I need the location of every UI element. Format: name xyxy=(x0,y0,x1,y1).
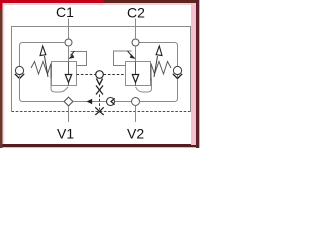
wire top-left branch xyxy=(20,43,66,67)
check valve CV1 (left) xyxy=(15,66,24,78)
wire C2 vertical xyxy=(135,19,137,40)
pilot piston passage (left valve) xyxy=(68,51,86,66)
pilot line right valve to shuttle xyxy=(104,74,126,76)
adjustment arrow (right valve) xyxy=(154,46,162,77)
wire right vertical upper xyxy=(139,43,178,67)
pilot loop (left valve) xyxy=(51,78,68,92)
node V2 junction (circle) xyxy=(132,98,140,106)
adjustment arrow (left valve) xyxy=(40,46,48,77)
manifold boundary box xyxy=(12,27,191,112)
spring (left valve) xyxy=(31,62,51,82)
pilot piston passage (right valve) xyxy=(114,51,136,66)
wire main line left-center xyxy=(73,101,106,103)
pilot loop (right valve) xyxy=(136,78,152,92)
wire C1 to valve xyxy=(68,46,70,62)
pilot line left valve to shuttle xyxy=(77,74,96,76)
svg-text:C2: C2 xyxy=(127,5,145,21)
counterbalance valve body (left) xyxy=(52,62,77,86)
svg-text:V2: V2 xyxy=(127,126,144,142)
wire V2 node to right corner xyxy=(140,75,178,102)
wire C2 to valve xyxy=(135,46,137,62)
counterbalance valve body (right) xyxy=(126,62,151,86)
shuttle circle xyxy=(96,71,104,79)
orifice (vertical line) xyxy=(96,86,103,95)
svg-text:V1: V1 xyxy=(57,126,74,142)
check valve CV2 (right) xyxy=(173,66,182,78)
node V1 junction (diamond) xyxy=(64,97,73,106)
wire C1 vertical xyxy=(68,19,70,40)
poppet (left valve) xyxy=(65,62,71,86)
wire check to V2 node xyxy=(115,101,132,103)
check valve CV3 (center) xyxy=(107,98,115,106)
port circle C1 xyxy=(65,39,72,46)
wire left vertical lower xyxy=(20,75,65,102)
drain line (bottom dashed) xyxy=(12,111,191,113)
spring (right valve) xyxy=(151,62,171,82)
poppet (right valve) xyxy=(132,62,138,86)
port circle C2 xyxy=(132,39,139,46)
svg-text:C1: C1 xyxy=(56,4,74,20)
border frame xyxy=(0,0,200,148)
orifice (drain line) xyxy=(95,107,103,115)
wire V1 down xyxy=(68,106,70,122)
wire V2 down xyxy=(135,106,137,123)
flow arrow left xyxy=(87,99,93,105)
pilot arrow down xyxy=(96,79,102,85)
pilot line center vertical xyxy=(99,95,101,110)
